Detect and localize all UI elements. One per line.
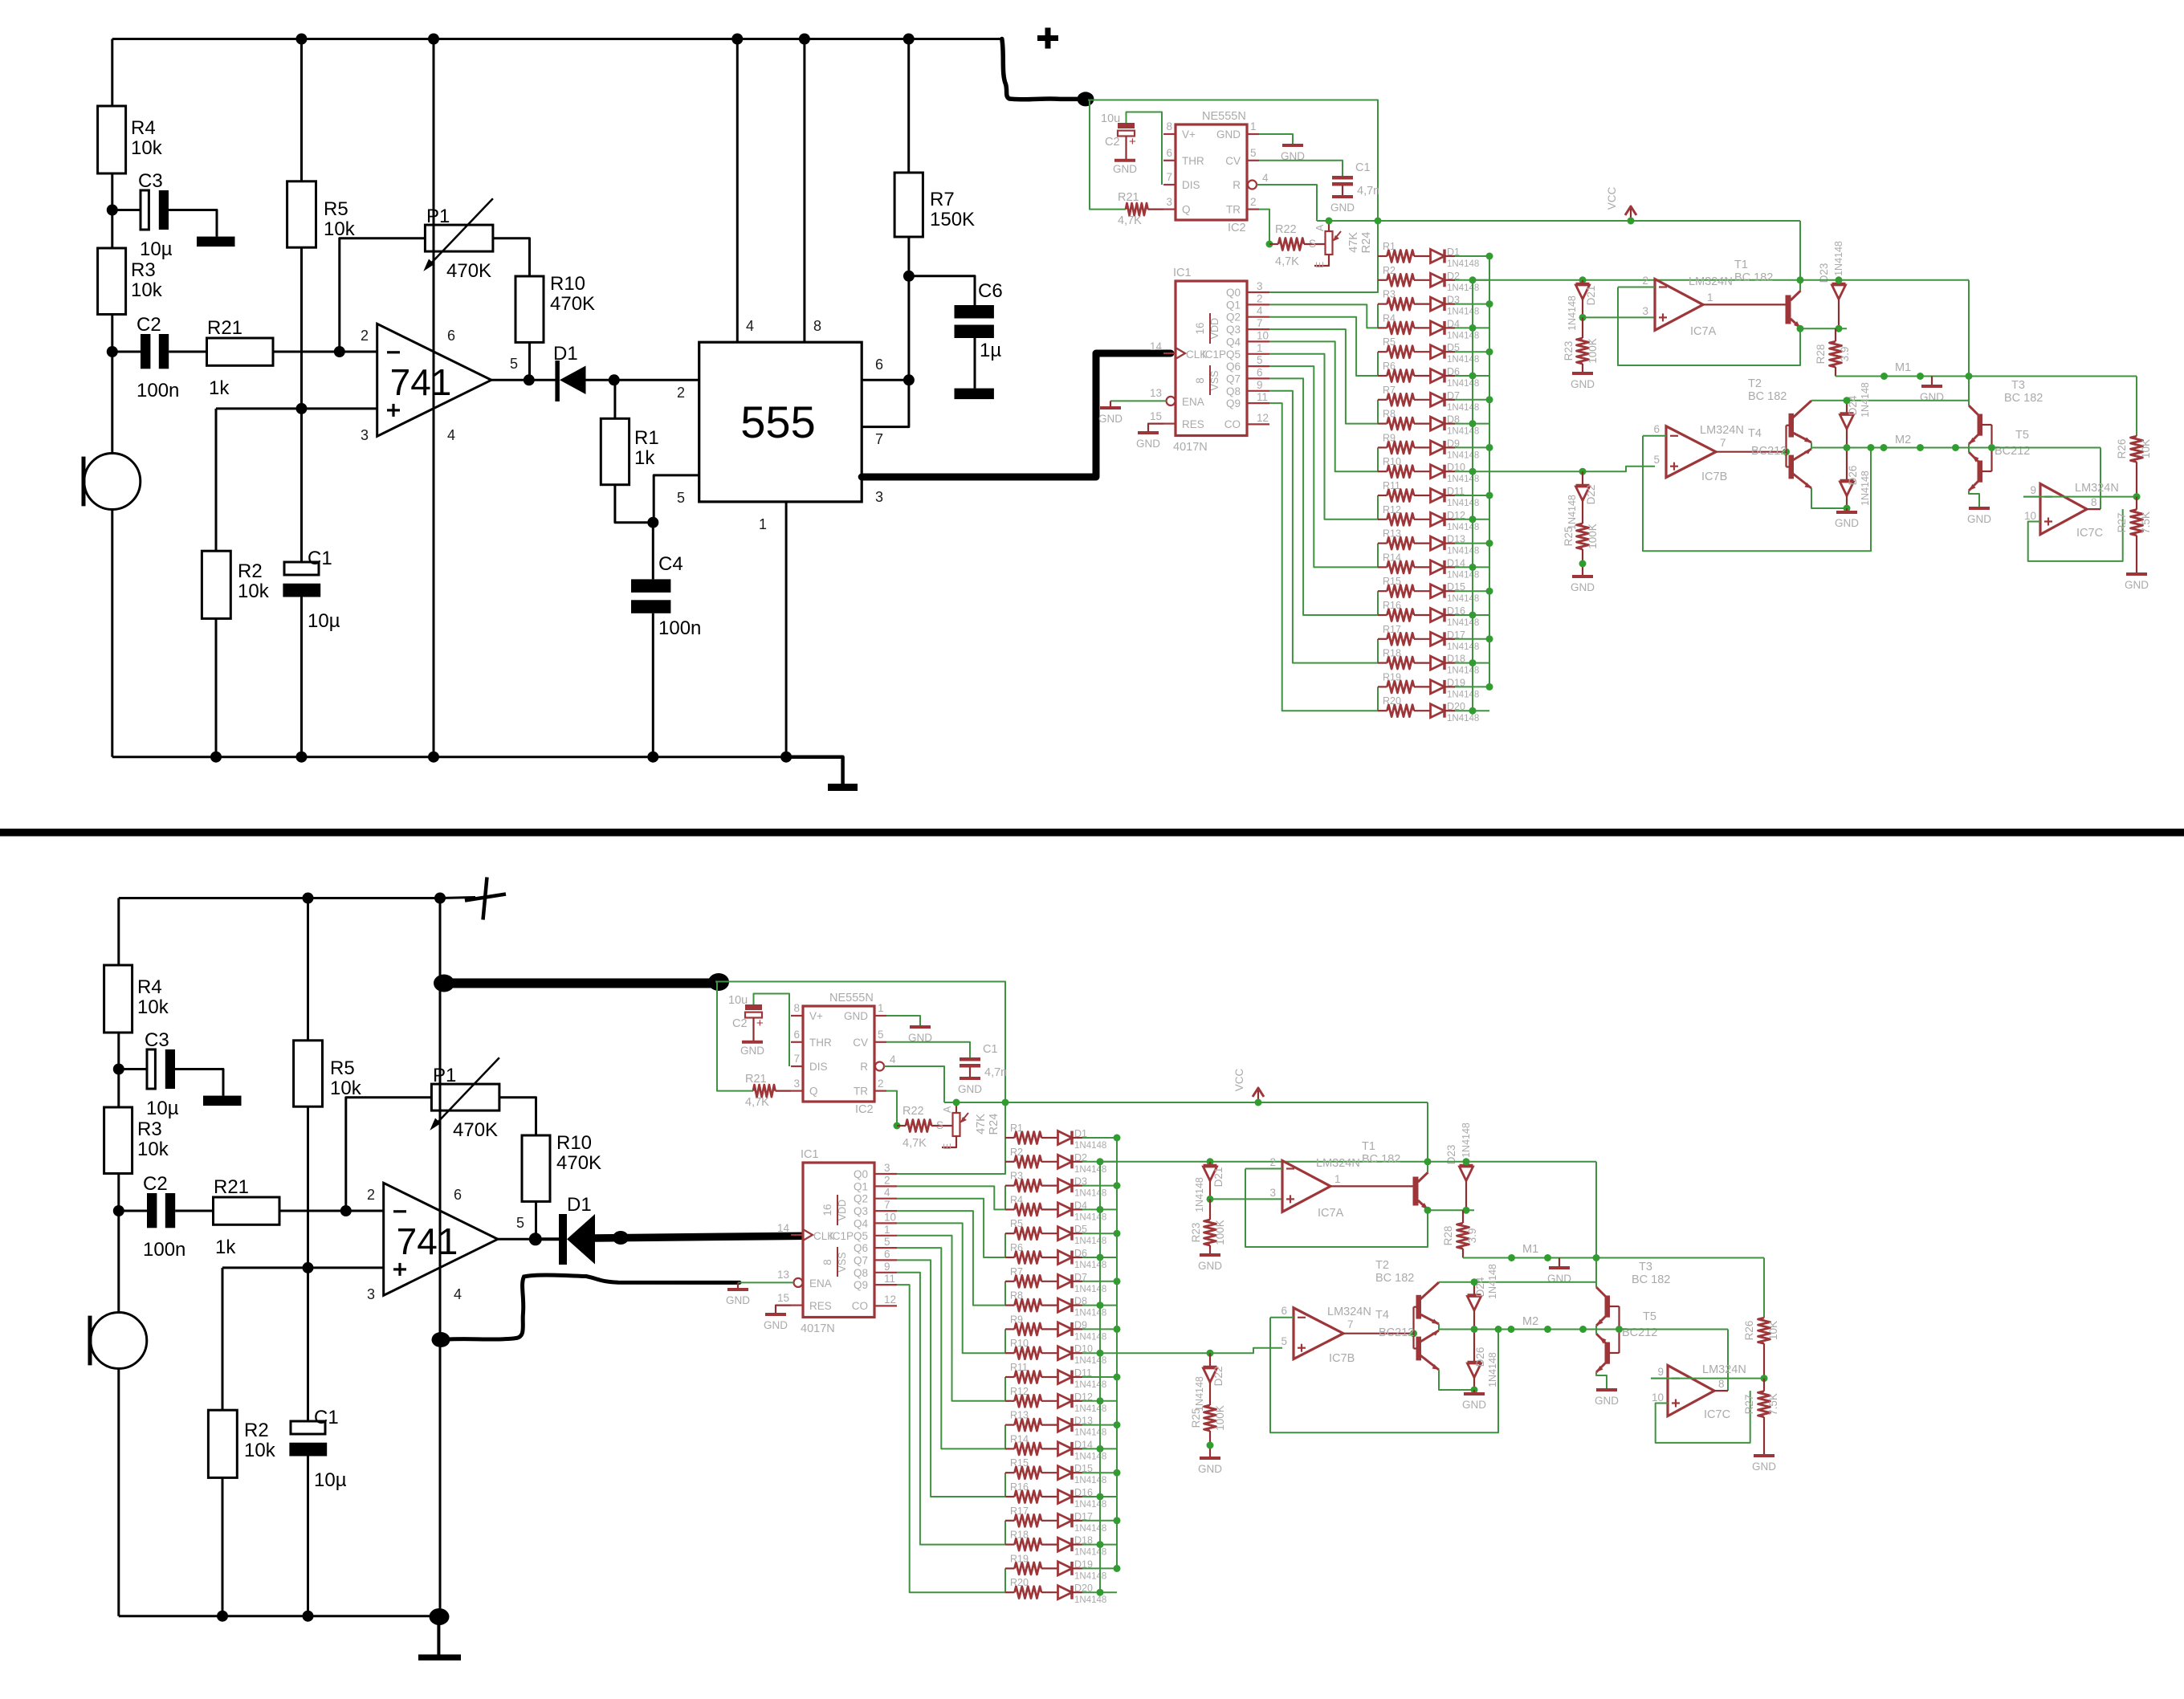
svg-text:1N4148: 1N4148 bbox=[1447, 570, 1479, 580]
node M2 c (bottom) bbox=[1544, 1326, 1551, 1333]
diode D16 bbox=[1414, 614, 1431, 616]
node inverting input / P1 tap bbox=[334, 346, 345, 357]
node bottom rail 555 pin1 bbox=[780, 752, 792, 763]
svg-text:GND: GND bbox=[1571, 378, 1595, 390]
svg-text:VSS: VSS bbox=[837, 1252, 848, 1272]
svg-text:IC7B: IC7B bbox=[1329, 1352, 1355, 1365]
wire D20 to bus bbox=[1444, 710, 1455, 711]
wire R10 to op-amp output bbox=[528, 342, 531, 380]
green wire Q7 fan bbox=[1269, 378, 1378, 615]
svg-text:Q4: Q4 bbox=[854, 1217, 869, 1229]
microphone (bottom) bbox=[91, 1313, 147, 1369]
svg-text:+: + bbox=[1129, 135, 1136, 149]
svg-text:R22: R22 bbox=[903, 1105, 924, 1118]
svg-text:1N4148: 1N4148 bbox=[1074, 1548, 1106, 1558]
IC1 pin Q0 (bottom) bbox=[874, 1173, 897, 1175]
svg-text:GND: GND bbox=[740, 1045, 764, 1057]
svg-text:GND: GND bbox=[844, 1010, 868, 1022]
resistor R8 array (bottom) bbox=[1005, 1304, 1015, 1306]
node rail 555 pin8 column bbox=[799, 34, 810, 45]
resistor R7 array (bottom) bbox=[1005, 1281, 1015, 1282]
svg-text:16: 16 bbox=[1194, 322, 1206, 334]
svg-text:1N4148: 1N4148 bbox=[1074, 1309, 1106, 1318]
diode D7 (bottom) bbox=[1041, 1281, 1058, 1282]
node M2 d (bottom) bbox=[1579, 1326, 1587, 1333]
NE555N pin V+ (bottom) bbox=[791, 1015, 803, 1017]
wire VCC to T1 collector (bottom) bbox=[1427, 1102, 1428, 1172]
svg-text:GND: GND bbox=[1752, 1461, 1776, 1473]
svg-text:E: E bbox=[942, 1143, 953, 1150]
green wire Q9 fan bbox=[1269, 403, 1378, 711]
svg-text:1: 1 bbox=[1707, 291, 1713, 304]
thick wire 555 pin3 to IC1 CLK bbox=[862, 353, 1171, 477]
svg-text:10k: 10k bbox=[137, 1139, 169, 1160]
top schematic - black hand section bbox=[84, 28, 1171, 792]
svg-text:5: 5 bbox=[510, 356, 518, 372]
svg-text:470K: 470K bbox=[556, 1152, 601, 1174]
wire op-amp mid column (bottom) bbox=[439, 898, 442, 1616]
svg-text:1N4148: 1N4148 bbox=[1860, 471, 1871, 506]
svg-text:10: 10 bbox=[1652, 1391, 1664, 1404]
svg-text:14: 14 bbox=[777, 1222, 790, 1234]
node op-amp output (bottom) bbox=[530, 1233, 541, 1245]
svg-text:T5: T5 bbox=[2015, 429, 2029, 442]
wire IC7B inverting input (bottom) bbox=[1270, 1317, 1294, 1318]
svg-text:10K: 10K bbox=[2140, 439, 2152, 458]
svg-text:R7: R7 bbox=[930, 189, 955, 210]
resistor R5 (bottom) bbox=[307, 898, 309, 1041]
svg-text:R21: R21 bbox=[214, 1176, 249, 1198]
wire T2 collector row (bottom) bbox=[1439, 1281, 1596, 1283]
wire 555 pin6 bbox=[862, 379, 909, 381]
resistor R3 array bbox=[1378, 304, 1387, 305]
resistor R10 array (bottom) bbox=[1005, 1352, 1015, 1354]
wire top supply rail bbox=[112, 38, 434, 40]
svg-text:M2: M2 bbox=[1522, 1315, 1538, 1328]
svg-text:1N4148: 1N4148 bbox=[1074, 1356, 1106, 1366]
svg-text:4017N: 4017N bbox=[1173, 441, 1208, 454]
wire IC7B feedback loop bbox=[1643, 436, 1871, 551]
svg-text:1N4148: 1N4148 bbox=[1447, 618, 1479, 628]
svg-text:R4: R4 bbox=[131, 117, 156, 139]
wire D15 to bus bbox=[1444, 590, 1455, 592]
resistor R1 array (bottom) bbox=[1005, 1137, 1015, 1139]
svg-text:1N4148: 1N4148 bbox=[1074, 1500, 1106, 1510]
node rail 555 pin4 column bbox=[731, 34, 743, 45]
IC1 pin Q4 (bottom) bbox=[874, 1222, 897, 1224]
green wire R19-R20 tie bbox=[1377, 687, 1379, 711]
wire non-inverting input (bottom) bbox=[222, 1266, 384, 1269]
IC1 pin Q8 bbox=[1247, 390, 1269, 392]
node bottom rail mid column (bottom) bbox=[434, 1611, 446, 1622]
svg-text:10u: 10u bbox=[1101, 112, 1120, 125]
resistor R14 array (bottom) bbox=[1005, 1448, 1015, 1449]
diode D17 bbox=[1414, 638, 1431, 640]
svg-text:1: 1 bbox=[1257, 342, 1263, 354]
svg-text:R16: R16 bbox=[1383, 600, 1401, 611]
diode D23 (bottom) bbox=[1465, 1162, 1467, 1166]
capacitor C2 electrolytic bbox=[1118, 123, 1135, 128]
IC1 pin CO bbox=[1247, 423, 1269, 425]
svg-text:1: 1 bbox=[759, 516, 767, 532]
svg-text:100K: 100K bbox=[1587, 338, 1599, 364]
wire D10 to bus (bottom) bbox=[1072, 1352, 1082, 1354]
diode D3 bbox=[1414, 304, 1431, 305]
wire C3 to ground bar (bottom) bbox=[175, 1070, 223, 1096]
green bus even diodes bbox=[1472, 280, 1473, 711]
wire D6 to bus bbox=[1444, 375, 1455, 377]
IC1 pin Q0 bbox=[1247, 291, 1269, 293]
svg-text:BC 182: BC 182 bbox=[2004, 392, 2043, 405]
svg-text:741: 741 bbox=[397, 1220, 458, 1262]
op-amp 741 (bottom) bbox=[384, 1183, 498, 1295]
node R3-C2 (bottom) bbox=[113, 1205, 124, 1216]
green wire R3-R4 tie (bottom) bbox=[1004, 1186, 1006, 1210]
IC1 pin Q9 (bottom) bbox=[874, 1284, 897, 1285]
wire CV to C1 bbox=[1259, 161, 1343, 176]
svg-text:100n: 100n bbox=[143, 1239, 185, 1261]
node op-amp output (bottom) bbox=[529, 1232, 542, 1245]
svg-text:LM324N: LM324N bbox=[1700, 424, 1744, 437]
node M1 b bbox=[1917, 373, 1924, 380]
svg-text:9: 9 bbox=[2030, 484, 2036, 496]
wire D3 to bus bbox=[1444, 304, 1455, 305]
green wire Q8 fan (bottom) bbox=[897, 1273, 1005, 1545]
svg-text:1N4148: 1N4148 bbox=[1860, 382, 1871, 418]
green wire Q0 fan bbox=[1269, 280, 1378, 292]
green VCC rail (bottom) bbox=[944, 1102, 1428, 1103]
svg-text:CV: CV bbox=[853, 1037, 868, 1049]
svg-text:8: 8 bbox=[821, 1259, 833, 1265]
svg-text:R18: R18 bbox=[1010, 1530, 1029, 1541]
svg-text:Q2: Q2 bbox=[854, 1193, 868, 1205]
solder blob at NE555N rail bbox=[1078, 92, 1094, 106]
wire D1 to bus bbox=[1444, 255, 1455, 257]
svg-text:GND: GND bbox=[1595, 1395, 1619, 1407]
wire D8 to bus (bottom) bbox=[1072, 1304, 1082, 1306]
svg-text:R13: R13 bbox=[1010, 1410, 1029, 1421]
svg-text:10k: 10k bbox=[324, 218, 356, 240]
green wire rail to R1 bbox=[1377, 221, 1379, 256]
wire D15 to bus (bottom) bbox=[1072, 1472, 1082, 1473]
wire T1 emitter row (bottom) bbox=[1428, 1209, 1474, 1211]
svg-text:3: 3 bbox=[361, 427, 369, 443]
svg-text:IC1P: IC1P bbox=[1202, 348, 1226, 361]
svg-text:A: A bbox=[1314, 224, 1326, 231]
wire 555 pin1 bbox=[785, 502, 788, 757]
capacitor C1 4.7n bbox=[1332, 176, 1353, 180]
NE555N pin CV bbox=[1247, 160, 1259, 161]
svg-text:8: 8 bbox=[1194, 377, 1206, 384]
svg-text:IC2: IC2 bbox=[855, 1103, 874, 1116]
svg-text:R4: R4 bbox=[1010, 1194, 1023, 1205]
IC1 pin Q2 bbox=[1247, 316, 1269, 318]
svg-text:4,7K: 4,7K bbox=[745, 1096, 769, 1109]
svg-text:GND: GND bbox=[1967, 513, 1991, 525]
diode D22 (bottom) bbox=[1207, 1350, 1214, 1357]
svg-text:T3: T3 bbox=[1639, 1261, 1652, 1273]
resistor R5 array (bottom) bbox=[1005, 1232, 1015, 1234]
svg-text:D21: D21 bbox=[1212, 1167, 1224, 1188]
wire M2 row bbox=[1811, 447, 2100, 449]
svg-text:1N4148: 1N4148 bbox=[1074, 1595, 1106, 1605]
svg-text:Q1: Q1 bbox=[1226, 299, 1241, 311]
svg-text:4017N: 4017N bbox=[801, 1322, 835, 1335]
green wire R7-R8 tie (bottom) bbox=[1004, 1281, 1006, 1306]
green wire R1-R2 tie bbox=[1377, 256, 1379, 280]
svg-text:1: 1 bbox=[878, 1002, 884, 1014]
wire NE555N GND pin to ground (bottom) bbox=[886, 1016, 920, 1027]
svg-text:BC 182: BC 182 bbox=[1362, 1153, 1400, 1166]
svg-text:P1: P1 bbox=[426, 206, 450, 227]
svg-text:3: 3 bbox=[1269, 1187, 1276, 1199]
svg-text:R22: R22 bbox=[1275, 223, 1297, 236]
resistor R16 array bbox=[1378, 614, 1387, 616]
node M1 a (bottom) bbox=[1508, 1254, 1515, 1261]
node M1 a bbox=[1880, 373, 1888, 380]
IC1 pin Q2 (bottom) bbox=[874, 1198, 897, 1200]
green wire Q3 fan bbox=[1269, 329, 1378, 423]
resistor R11 array (bottom) bbox=[1005, 1376, 1015, 1378]
node R1 C4 pin5 bbox=[647, 517, 658, 528]
green wire bus to IC7B network bbox=[1489, 467, 1655, 472]
hand-drawn ground symbol bbox=[437, 1617, 440, 1656]
node non-inverting row / R5 column (bottom) bbox=[303, 1262, 314, 1273]
svg-text:47K: 47K bbox=[975, 1114, 988, 1135]
resistor R20 array (bottom) bbox=[1005, 1591, 1015, 1593]
svg-text:BC 182: BC 182 bbox=[1375, 1272, 1414, 1285]
svg-text:1N4148: 1N4148 bbox=[1447, 331, 1479, 340]
svg-text:12: 12 bbox=[884, 1294, 896, 1306]
NE555N pin V+ bbox=[1163, 133, 1176, 135]
svg-text:6: 6 bbox=[884, 1248, 890, 1260]
wire 555 pin8 bbox=[803, 39, 805, 343]
svg-text:10: 10 bbox=[1257, 329, 1269, 341]
svg-text:DIS: DIS bbox=[1182, 179, 1200, 191]
svg-text:D22: D22 bbox=[1585, 485, 1597, 505]
wire blob column to R21 bbox=[1090, 100, 1126, 210]
node R25 ground (bottom) bbox=[1207, 1442, 1214, 1449]
node op-amp output bbox=[524, 374, 535, 385]
node M1 T3 column (bottom) bbox=[1593, 1254, 1600, 1261]
svg-text:4,7K: 4,7K bbox=[1118, 214, 1142, 227]
resistor R4 (bottom) bbox=[104, 965, 132, 1033]
svg-text:1N4148: 1N4148 bbox=[1447, 594, 1479, 604]
diode D6 (bottom) bbox=[1041, 1257, 1058, 1258]
svg-text:4,7K: 4,7K bbox=[903, 1137, 927, 1150]
svg-text:1N4148: 1N4148 bbox=[1074, 1476, 1106, 1485]
solder blob at ENA wire start bbox=[432, 1332, 450, 1347]
resistor R21 bbox=[207, 338, 274, 365]
ground bar at C3 (bottom) bbox=[203, 1096, 242, 1106]
svg-text:GND: GND bbox=[1547, 1273, 1571, 1285]
node R22 left (bottom) bbox=[894, 1122, 901, 1130]
node M2 a bbox=[1868, 444, 1875, 451]
IC1 RES pin (bottom) bbox=[791, 1304, 803, 1306]
wire IC7B inverting input bbox=[1643, 435, 1666, 437]
IC1 RES pin bbox=[1163, 422, 1176, 424]
wire M2 to IC7C output bbox=[2100, 448, 2101, 510]
NE555N pin GND (bottom) bbox=[874, 1015, 886, 1017]
IC2 NE555N box (bottom) bbox=[803, 1006, 874, 1102]
svg-text:R21: R21 bbox=[1118, 191, 1139, 204]
svg-text:10u: 10u bbox=[728, 994, 748, 1007]
node rail R7 column bbox=[903, 34, 915, 45]
green wire R19-R20 tie (bottom) bbox=[1004, 1568, 1006, 1592]
wire D12 to bus (bottom) bbox=[1072, 1400, 1082, 1402]
svg-text:R27: R27 bbox=[1743, 1395, 1755, 1415]
node VCC rail bbox=[1628, 218, 1635, 225]
node M1 T3 column bbox=[1966, 373, 1973, 380]
svg-text:T1: T1 bbox=[1734, 259, 1748, 271]
resistor R3 (bottom) bbox=[104, 1107, 132, 1174]
svg-text:14: 14 bbox=[1150, 340, 1163, 352]
wire VCC to T1 collector bbox=[1799, 221, 1801, 291]
resistor R19 array (bottom) bbox=[1005, 1567, 1015, 1569]
hand-drawn plus mark bbox=[465, 894, 506, 901]
wire D10 to bus bbox=[1444, 471, 1455, 472]
node non-inverting row / R5 column bbox=[296, 403, 308, 414]
wire R1 to C4 node bbox=[615, 485, 653, 523]
diode D20 (bottom) bbox=[1041, 1591, 1058, 1593]
svg-text:1N4148: 1N4148 bbox=[1074, 1285, 1106, 1294]
svg-text:4: 4 bbox=[1257, 305, 1263, 317]
svg-text:2: 2 bbox=[1250, 196, 1257, 208]
svg-text:R10: R10 bbox=[1383, 456, 1401, 467]
svg-text:C4: C4 bbox=[658, 553, 683, 575]
svg-text:D21: D21 bbox=[1585, 286, 1597, 306]
svg-text:1N4148: 1N4148 bbox=[1074, 1332, 1106, 1342]
green wire R9-R10 tie bbox=[1377, 447, 1379, 471]
svg-text:C1: C1 bbox=[1355, 161, 1371, 174]
green wire Q3 fan (bottom) bbox=[897, 1211, 1005, 1306]
svg-text:NE555N: NE555N bbox=[1202, 110, 1246, 123]
ground at R27 bbox=[2126, 572, 2147, 576]
wire D11 to bus (bottom) bbox=[1072, 1376, 1082, 1378]
green wire Q0 fan (bottom) bbox=[897, 1162, 1005, 1174]
wire blob column to R21 (bottom) bbox=[717, 982, 753, 1091]
node T1 emitter bbox=[1797, 325, 1804, 332]
svg-text:R12: R12 bbox=[1383, 504, 1401, 515]
svg-text:10µ: 10µ bbox=[308, 610, 340, 632]
svg-text:T1: T1 bbox=[1362, 1140, 1375, 1153]
svg-text:LM324N: LM324N bbox=[1702, 1363, 1746, 1376]
svg-text:11: 11 bbox=[1257, 391, 1268, 403]
svg-text:9: 9 bbox=[1257, 379, 1263, 391]
capacitor C3 bbox=[112, 209, 141, 211]
resistor R8 array bbox=[1378, 422, 1387, 424]
svg-text:DIS: DIS bbox=[809, 1061, 828, 1073]
IC1 pin Q1 bbox=[1247, 304, 1269, 305]
wire T3 T5 base tie (bottom) bbox=[1609, 1306, 1620, 1307]
diode D18 bbox=[1414, 662, 1431, 663]
diode D26 bbox=[1846, 448, 1848, 481]
svg-text:GND: GND bbox=[1216, 128, 1241, 141]
svg-text:BC 182: BC 182 bbox=[1632, 1273, 1670, 1286]
svg-text:GND: GND bbox=[1920, 391, 1944, 403]
svg-text:2: 2 bbox=[884, 1174, 890, 1186]
diode D8 (bottom) bbox=[1041, 1304, 1058, 1306]
resistor R19 array bbox=[1378, 686, 1387, 687]
NE555N pin CV (bottom) bbox=[874, 1041, 886, 1043]
svg-text:BC 182: BC 182 bbox=[1748, 390, 1787, 403]
svg-text:Q8: Q8 bbox=[1226, 385, 1241, 397]
svg-text:4: 4 bbox=[1262, 172, 1269, 184]
svg-text:1k: 1k bbox=[634, 447, 655, 469]
svg-text:6: 6 bbox=[875, 357, 883, 373]
node bottom rail mid column bbox=[428, 752, 439, 763]
green wire Q8 fan bbox=[1269, 391, 1378, 663]
resistor R10 array bbox=[1378, 471, 1387, 472]
op-amp IC7C bbox=[2040, 484, 2087, 535]
wire IC7B feedback loop (bottom) bbox=[1270, 1318, 1498, 1432]
svg-text:1N4148: 1N4148 bbox=[1074, 1404, 1106, 1414]
wire IC7C non-inverting loop (bottom) bbox=[1656, 1391, 1750, 1443]
green wire Q7 fan (bottom) bbox=[897, 1260, 1005, 1497]
op-amp IC7A bbox=[1655, 279, 1703, 331]
svg-text:1N4148: 1N4148 bbox=[1447, 355, 1479, 365]
IC1 VSS marker bbox=[1209, 365, 1211, 395]
wire C3 to ground bar bbox=[169, 210, 217, 237]
svg-text:1N4148: 1N4148 bbox=[1074, 1189, 1106, 1199]
capacitor C1 bbox=[284, 562, 319, 575]
ground at R25 (bottom) bbox=[1200, 1457, 1220, 1460]
wire R21 to op-amp inverting input bbox=[273, 351, 377, 353]
svg-text:R13: R13 bbox=[1383, 528, 1401, 540]
wire D18 to bus bbox=[1444, 662, 1455, 663]
resistor R26 10K bbox=[2136, 377, 2137, 437]
diode D1 (bottom, hand thickened) bbox=[536, 1237, 560, 1241]
wire D14 to bus bbox=[1444, 566, 1455, 568]
svg-text:A: A bbox=[942, 1106, 953, 1113]
resistor R22 4.7K (bottom) bbox=[897, 1125, 906, 1127]
svg-text:VDD: VDD bbox=[837, 1200, 848, 1220]
wire TR pin to R22 (bottom) bbox=[886, 1091, 897, 1126]
green wire Q1 fan (bottom) bbox=[897, 1186, 1005, 1209]
node base tie M2 (bottom) bbox=[1616, 1326, 1623, 1333]
svg-text:4,7n: 4,7n bbox=[1357, 185, 1379, 198]
resistor R26 10K (bottom) bbox=[1763, 1258, 1765, 1318]
wire TR pin to R22 bbox=[1259, 210, 1269, 244]
svg-text:R19: R19 bbox=[1010, 1553, 1029, 1564]
svg-text:1N4148: 1N4148 bbox=[1074, 1261, 1106, 1270]
svg-text:GND: GND bbox=[1835, 517, 1859, 529]
IC1 pin Q3 (bottom) bbox=[874, 1210, 897, 1212]
svg-text:THR: THR bbox=[809, 1037, 832, 1049]
IC1 CLK pin (bottom) bbox=[791, 1234, 803, 1236]
svg-text:R16: R16 bbox=[1010, 1481, 1029, 1493]
svg-text:VSS: VSS bbox=[1209, 370, 1220, 390]
resistor R27 7.5K bbox=[2136, 497, 2137, 510]
svg-text:GND: GND bbox=[1330, 202, 1355, 214]
transistor T2 BC182 (bottom) bbox=[1416, 1295, 1422, 1319]
node R4-C3 bbox=[107, 205, 118, 216]
potentiometer P1 (bottom) bbox=[431, 1084, 499, 1110]
node T2 T4 base (bottom) bbox=[1410, 1330, 1417, 1337]
svg-text:7.5K: 7.5K bbox=[2140, 511, 2152, 534]
svg-text:1: 1 bbox=[1250, 120, 1257, 132]
svg-text:R2: R2 bbox=[244, 1420, 269, 1441]
svg-text:R24: R24 bbox=[1360, 232, 1373, 254]
svg-text:100K: 100K bbox=[1214, 1220, 1226, 1245]
diode D21 bbox=[1579, 276, 1587, 283]
resistor R23 100K (bottom) bbox=[1209, 1199, 1211, 1220]
svg-text:R4: R4 bbox=[1383, 312, 1396, 324]
svg-text:R8: R8 bbox=[1383, 409, 1396, 420]
IC1 ENA pin bbox=[1167, 397, 1176, 405]
transistor T4 BC212 (bottom) bbox=[1416, 1337, 1422, 1361]
svg-text:+: + bbox=[756, 1017, 764, 1030]
